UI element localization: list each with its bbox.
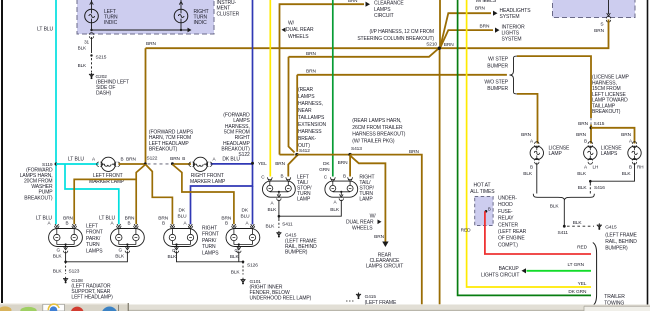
splice S415 (578, 118, 605, 144)
svg-text:G: G (57, 247, 61, 252)
wire BRN branch lamp1 B (74, 179, 136, 224)
lamp LEFT FRONT PARK/TURN 2 (111, 224, 145, 253)
svg-text:BRN: BRN (374, 234, 384, 240)
svg-text:BRN: BRN (146, 41, 156, 47)
splice S126 (231, 262, 259, 276)
label G415 tail (285, 232, 317, 255)
wire BRN S412 to S413 (297, 154, 350, 156)
pin B fuse box (485, 207, 491, 213)
svg-text:CIRCUIT: CIRCUIT (374, 13, 394, 19)
bottom-right window corner (584, 306, 650, 311)
svg-text:B: B (343, 174, 346, 179)
svg-text:(LEFT REAR: (LEFT REAR (498, 229, 527, 235)
svg-text:LEFT: LEFT (86, 224, 98, 230)
svg-text:W/ STEP: W/ STEP (488, 57, 509, 63)
svg-text:DUAL REAR: DUAL REAR (346, 219, 374, 225)
label G202 (96, 74, 130, 96)
arrow HEADLIGHTS SYSTEM (475, 5, 531, 20)
label license harness (592, 75, 630, 116)
svg-text:INDIC: INDIC (104, 20, 118, 26)
svg-text:BLK: BLK (230, 254, 240, 260)
svg-text:BRN: BRN (306, 51, 316, 57)
svg-text:LAMPS: LAMPS (601, 151, 618, 157)
lamp LEFT FRONT PARK/TURN 1 (49, 224, 83, 253)
page right border (647, 0, 649, 305)
svg-text:(W/ TRAILER PKG): (W/ TRAILER PKG) (352, 138, 395, 144)
svg-text:B: B (530, 164, 533, 169)
lamp LICENSE LAMPS LH (584, 142, 597, 164)
svg-text:LAMPS: LAMPS (298, 94, 315, 100)
svg-text:BRN: BRN (348, 0, 357, 3)
taskbar icon red (71, 307, 84, 311)
label S122 left harness (149, 130, 194, 153)
ground G415 mid (356, 293, 361, 300)
svg-text:YEL: YEL (258, 161, 267, 167)
svg-text:BRN: BRN (621, 132, 631, 138)
svg-text:BLK: BLK (78, 46, 87, 51)
svg-text:BLK: BLK (523, 171, 533, 177)
svg-text:ALL TIMES: ALL TIMES (470, 189, 495, 195)
svg-text:BRN: BRN (521, 132, 531, 138)
svg-text:31: 31 (84, 40, 89, 45)
svg-text:BLK: BLK (330, 207, 340, 213)
wire BRN left marker to S122 (118, 156, 145, 164)
svg-text:COMPT.): COMPT.) (498, 242, 518, 248)
svg-text:TURN: TURN (86, 242, 100, 248)
svg-text:MARKER LAMP: MARKER LAMP (190, 179, 226, 185)
wire BRN S210 to connector S (439, 20, 609, 49)
svg-text:LAMPS: LAMPS (86, 248, 103, 254)
ground G415 license (597, 223, 602, 230)
svg-text:BRN: BRN (126, 156, 136, 162)
wire BRN top branch clearance (280, 0, 371, 155)
labels right tail lamp (324, 174, 375, 214)
svg-text:BLK: BLK (231, 269, 241, 275)
svg-text:G: G (172, 248, 176, 253)
svg-text:CLUSTER: CLUSTER (217, 11, 240, 17)
lamp RIGHT TAIL/STOP/TURN LAMP (325, 177, 358, 200)
svg-text:LT BLU: LT BLU (68, 156, 84, 162)
wire BLK license L1 down (536, 163, 538, 194)
label HOT AT ALL TIMES (470, 183, 495, 195)
labels license lamp LH (576, 132, 622, 177)
svg-text:BREAK-: BREAK- (298, 136, 316, 142)
wire DK BLU down lamp4 (252, 186, 254, 224)
svg-text:LAMPS CIRCUIT: LAMPS CIRCUIT (366, 264, 403, 270)
labels park/turn lamp2 (99, 216, 135, 260)
svg-text:RIGHT: RIGHT (202, 226, 217, 232)
svg-text:HARNESS,: HARNESS, (298, 101, 323, 107)
svg-text:W/: W/ (288, 21, 295, 27)
wire BRN corner2 horizontal (289, 48, 439, 57)
ground G415 tail (276, 231, 281, 238)
svg-text:BRN: BRN (576, 132, 586, 138)
splice S215 (78, 54, 107, 72)
svg-text:(REAR LAMPS HARN,: (REAR LAMPS HARN, (352, 118, 401, 124)
lamp LICENSE LAMP (w/o step bumper) (530, 142, 543, 164)
lamp RIGHT FRONT PARK/TURN 1 (164, 224, 198, 253)
svg-text:HARNESS: HARNESS (298, 129, 322, 135)
junction S210 (426, 0, 493, 304)
svg-text:B: B (281, 174, 284, 179)
wire BRN right marker feed (170, 156, 191, 164)
svg-text:BRN: BRN (275, 161, 285, 167)
taskbar icon 1 (0, 306, 12, 311)
taskbar icon IE (43, 304, 65, 311)
svg-text:S413: S413 (351, 146, 362, 152)
wire LT BLU vertical (37, 0, 56, 224)
label IP harness S210 (357, 29, 434, 42)
svg-text:DASH): DASH) (96, 90, 111, 96)
ground G202 (89, 73, 94, 80)
wire DK BLU horizontal (211, 163, 253, 165)
svg-text:BRN: BRN (594, 28, 604, 34)
svg-text:BLK: BLK (577, 171, 587, 177)
labels park/turn lamp4 (221, 208, 250, 260)
svg-text:SYSTEM: SYSTEM (500, 14, 520, 20)
junction S411 license (558, 220, 595, 236)
svg-text:S122: S122 (147, 156, 158, 162)
junction S119 (42, 162, 57, 168)
labels DK GRN / BRN right tail (319, 161, 330, 173)
brace W/ STEP BUMPER (487, 56, 517, 75)
wire BRN corner2 into S412 (289, 57, 295, 153)
svg-text:BRN: BRN (444, 42, 454, 48)
svg-text:BRN: BRN (480, 23, 490, 29)
svg-text:RAIL, BEHIND: RAIL, BEHIND (605, 239, 637, 245)
arrow INTERIOR LIGHTS SYSTEM (480, 23, 526, 42)
svg-text:LAMPS: LAMPS (202, 250, 219, 256)
wire BLK tail lamp grounds (278, 200, 342, 218)
label S122 right harness (221, 113, 250, 159)
wire: left turn indic feed (91, 0, 93, 9)
svg-text:BUMPER: BUMPER (487, 86, 508, 92)
label TRAILER TOWING (604, 294, 625, 307)
wire DK GRN to right tail C (332, 0, 334, 177)
svg-text:UNDERHOOD REEL LAMP): UNDERHOOD REEL LAMP) (250, 296, 312, 302)
labels YEL/BRN left tail (258, 161, 267, 167)
wire LT BLU to left marker (56, 156, 99, 164)
svg-text:BACKUP: BACKUP (499, 266, 520, 272)
svg-text:BRN: BRN (338, 160, 348, 166)
ground G108 (63, 277, 68, 284)
svg-text:B: B (128, 221, 131, 226)
svg-text:BRN: BRN (409, 149, 419, 155)
wire BRN S413 to right tail B (349, 155, 351, 177)
wire LT BLU branch (65, 164, 119, 224)
svg-text:TRAILER: TRAILER (604, 294, 625, 300)
svg-text:RED: RED (461, 228, 471, 234)
ground G101 (240, 278, 245, 285)
svg-text:S122: S122 (238, 152, 250, 158)
label UNDERHOOD FUSE RELAY CENTER (498, 196, 527, 249)
lamp RIGHT FRONT PARK/TURN 2 (226, 224, 260, 253)
svg-text:HOOD: HOOD (498, 202, 513, 208)
lamp LEFT TAIL/STOP/TURN LAMP (263, 177, 296, 200)
svg-text:S: S (600, 22, 603, 28)
connector box top right (553, 0, 636, 18)
wire YEL trailer (467, 0, 591, 287)
svg-text:S411: S411 (558, 230, 569, 236)
svg-text:BLK: BLK (578, 185, 588, 191)
wire: pin S drop (594, 0, 611, 34)
svg-text:BLK: BLK (78, 63, 87, 68)
svg-text:TURN: TURN (202, 244, 216, 250)
label LEFT FRONT PARK/TURN LAMPS (86, 224, 103, 255)
label rear lamps harness S412 (298, 87, 326, 149)
junction S412 (280, 148, 311, 156)
svg-text:B: B (629, 164, 632, 169)
lamp LICENSE LAMPS RH (628, 142, 641, 164)
svg-text:BUMPER): BUMPER) (605, 246, 628, 252)
svg-text:HARNESS BREAKOUT): HARNESS BREAKOUT) (352, 132, 405, 138)
page left border (1, 0, 3, 303)
svg-text:BUMPER): BUMPER) (285, 250, 308, 256)
svg-text:LH: LH (593, 164, 599, 169)
svg-text:B: B (162, 221, 165, 226)
wire RED (461, 211, 591, 254)
wire DK GRN trailer (458, 0, 591, 295)
splice S123 (53, 262, 80, 275)
svg-text:BLK: BLK (115, 253, 125, 259)
svg-text:NEAR: NEAR (298, 108, 312, 114)
svg-text:BLU: BLU (241, 214, 251, 220)
wire YEL to left tail C (269, 0, 271, 177)
svg-text:BLK: BLK (168, 254, 178, 260)
svg-text:INDIC: INDIC (194, 20, 208, 26)
junction S122 (144, 156, 158, 166)
svg-text:BLK: BLK (53, 268, 63, 274)
wire BRN rear clearance branch (350, 156, 388, 247)
svg-text:B: B (121, 156, 124, 161)
label A DK BLU right marker (213, 157, 241, 163)
label S119 harness (20, 167, 54, 201)
labels license lamp RH (621, 132, 643, 177)
svg-text:WHEELS: WHEELS (476, 0, 497, 4)
wire BLK left pair grounds (64, 251, 127, 263)
wire BRN corner3 to step-bumper brace (297, 74, 507, 76)
svg-text:BLK: BLK (53, 253, 63, 259)
labels left tail lamp (261, 174, 312, 214)
svg-text:LAMP: LAMP (359, 197, 373, 203)
brace trailer towing (593, 243, 597, 306)
svg-text:BRN: BRN (306, 69, 316, 75)
label BACKUP LIGHTS CIRCUIT (481, 266, 519, 279)
lamp: RIGHT TURN INDIC (174, 9, 188, 23)
junction right marker B (171, 162, 174, 165)
brace W/O STEP BUMPER (484, 75, 517, 94)
splice S411 tail (266, 216, 293, 229)
label CLEARANCE LAMPS CIRCUIT (374, 1, 404, 19)
svg-text:OUT): OUT) (298, 143, 310, 149)
taskbar icon 2 (20, 307, 36, 311)
svg-text:(LEFT FRAME: (LEFT FRAME (605, 233, 637, 239)
svg-text:S210: S210 (426, 41, 437, 47)
svg-text:W/: W/ (370, 213, 377, 219)
wire BLK license common (550, 200, 565, 227)
svg-text:BREAKOUT): BREAKOUT) (24, 195, 53, 201)
svg-text:(REAR: (REAR (298, 87, 314, 93)
svg-text:(I/P HARNESS, 12 CM FROM: (I/P HARNESS, 12 CM FROM (370, 29, 434, 35)
svg-text:FRONT: FRONT (202, 232, 219, 238)
svg-text:HOT AT: HOT AT (474, 183, 491, 189)
splice dashes S122 (148, 163, 170, 165)
svg-text:BRN: BRN (475, 5, 485, 11)
svg-text:DK: DK (242, 208, 249, 214)
wire BRN to lamp2 B (136, 164, 145, 224)
bottom window strip (129, 305, 650, 311)
wire BRN S413 to right loop (350, 155, 422, 305)
svg-text:DK: DK (179, 208, 186, 214)
svg-text:DK: DK (323, 161, 330, 167)
svg-text:LAMP: LAMP (297, 197, 311, 203)
junction license LH (589, 180, 592, 183)
svg-text:G: G (119, 247, 123, 252)
label REAR CLEARANCE LAMPS CIRCUIT (366, 252, 403, 269)
svg-text:PARK/: PARK/ (86, 236, 101, 242)
svg-text:G: G (235, 248, 239, 253)
svg-text:G415: G415 (365, 294, 377, 300)
svg-text:STEERING COLUMN BREAKOUT): STEERING COLUMN BREAKOUT) (357, 36, 434, 42)
junction dot DK BLU (251, 162, 254, 165)
svg-text:B: B (66, 221, 69, 226)
svg-text:PARK/: PARK/ (202, 238, 217, 244)
svg-text:BRN: BRN (578, 121, 588, 127)
wire BRN w/o step bumper (517, 94, 538, 144)
wire BRN S122 to lamp3 B (146, 164, 173, 224)
svg-text:BLK: BLK (550, 204, 560, 210)
svg-text:LEFT HEADLAMP): LEFT HEADLAMP) (71, 295, 113, 301)
wire: cluster ground bus (90, 23, 191, 33)
svg-text:S415: S415 (594, 121, 605, 127)
svg-text:RED: RED (577, 244, 587, 250)
svg-text:RELAY: RELAY (498, 216, 514, 222)
brace license grounds (533, 194, 594, 200)
svg-text:BLK: BLK (268, 207, 278, 213)
wire BRN corner3 vertical (296, 75, 298, 152)
svg-text:W/O STEP: W/O STEP (484, 79, 508, 85)
label W/ DUAL REAR WHEELS lower (346, 213, 382, 231)
svg-text:CLEARANCE: CLEARANCE (374, 1, 404, 7)
splice S416 (578, 181, 606, 193)
svg-text:EXTENSION: EXTENSION (298, 122, 326, 128)
svg-text:26CM FROM TRAILER: 26CM FROM TRAILER (352, 125, 403, 131)
wire DK BLU vertical (252, 0, 254, 163)
wire: right turn indic feed (180, 0, 182, 9)
svg-text:BRN: BRN (170, 156, 180, 162)
svg-text:GRN: GRN (319, 167, 330, 173)
svg-text:LT BLU: LT BLU (37, 27, 53, 33)
svg-text:DK GRN: DK GRN (568, 289, 587, 295)
label G108 (71, 278, 113, 301)
wire LT GRN backup (522, 262, 592, 273)
lamp RIGHT FRONT MARKER LAMP (189, 157, 212, 171)
lamp LEFT FRONT MARKER LAMP (97, 157, 120, 171)
svg-text:BREAKOUT): BREAKOUT) (149, 147, 178, 153)
svg-text:S215: S215 (96, 55, 107, 61)
svg-text:B: B (182, 156, 185, 161)
svg-text:YEL: YEL (578, 281, 587, 287)
svg-text:DUAL REAR: DUAL REAR (286, 27, 314, 33)
svg-text:TAILLAMPS: TAILLAMPS (298, 115, 325, 121)
wire BRN dot2 to lamp4 B (172, 164, 234, 224)
svg-text:LT GRN: LT GRN (567, 262, 584, 268)
svg-text:B: B (225, 221, 228, 226)
svg-text:G415: G415 (605, 225, 617, 231)
svg-text:S123: S123 (69, 268, 80, 274)
svg-text:LIGHTS CIRCUIT: LIGHTS CIRCUIT (481, 272, 519, 278)
wire BRN license branch RH (591, 128, 635, 144)
junction S413 (348, 146, 362, 156)
taskbar (0, 303, 129, 311)
svg-text:BREAKOUT): BREAKOUT) (592, 109, 621, 115)
wire BLK right pair grounds (177, 251, 245, 263)
svg-text:S416: S416 (594, 185, 605, 191)
svg-text:S411: S411 (282, 222, 293, 228)
svg-text:B: B (584, 138, 587, 143)
svg-text:LAMPS: LAMPS (374, 7, 391, 13)
fuse box UNDERHOOD FUSE-RELAY CENTER (475, 197, 493, 226)
svg-text:SYSTEM: SYSTEM (502, 37, 522, 43)
label G101 (250, 279, 312, 302)
svg-text:CENTER: CENTER (498, 222, 518, 228)
svg-text:FRONT: FRONT (86, 230, 103, 236)
label INSTRUMENT CLUSTER (217, 0, 240, 17)
label left marker (89, 173, 125, 185)
labels park/turn lamp1 (36, 216, 74, 260)
svg-text:OF ENGINE: OF ENGINE (498, 236, 525, 242)
label W/ DUAL REAR WHEELS upper (282, 21, 315, 40)
svg-text:UNDER-: UNDER- (498, 196, 517, 202)
wire 31 BLK from cluster (78, 33, 94, 53)
wire BLK license RH to LH (590, 163, 634, 182)
label RIGHT FRONT PARK/TURN LAMPS (202, 226, 219, 257)
wire BRN w/ step bumper (517, 56, 591, 118)
svg-text:LAMP: LAMP (549, 151, 563, 157)
taskbar icon blue (102, 307, 118, 311)
labels license lamp 1 (521, 132, 570, 177)
svg-text:BLK: BLK (622, 171, 632, 177)
label rear lamps harn S413 (352, 118, 405, 144)
svg-text:BLK: BLK (573, 220, 583, 226)
wire BRN outer loop from cluster (146, 41, 439, 163)
svg-text:BLK: BLK (266, 224, 276, 230)
svg-text:S126: S126 (247, 263, 258, 269)
taskbar separator (118, 305, 119, 311)
wire BRN S412 to left tail B (288, 156, 297, 177)
labels park/turn lamp3 (158, 208, 187, 260)
svg-text:WHEELS: WHEELS (288, 34, 309, 40)
instrument cluster box (77, 0, 214, 34)
svg-text:BUMPER: BUMPER (487, 63, 508, 69)
svg-text:WHEELS: WHEELS (352, 226, 373, 232)
label right marker (190, 173, 226, 185)
lamp: LEFT TURN INDIC (85, 9, 99, 23)
label G415 license (605, 225, 637, 252)
svg-text:RH: RH (637, 164, 643, 169)
wire DK BLU branch lamp3 (191, 163, 253, 224)
svg-text:FUSE-: FUSE- (498, 209, 513, 215)
svg-text:BLU: BLU (178, 214, 188, 220)
svg-text:B: B (488, 207, 491, 212)
